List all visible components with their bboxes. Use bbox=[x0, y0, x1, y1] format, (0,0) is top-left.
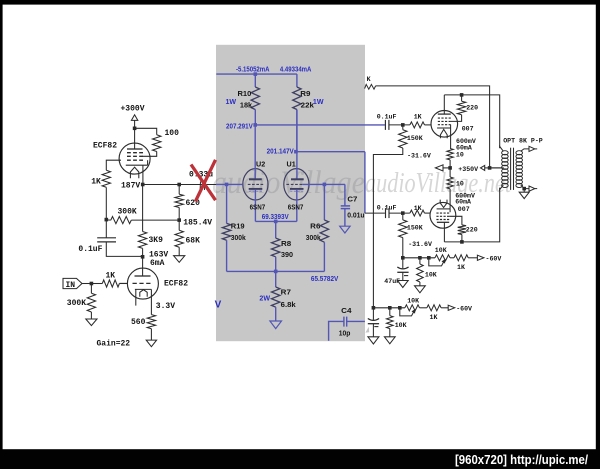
tube U2 plate bar bbox=[249, 178, 262, 180]
svg-text:C4: C4 bbox=[341, 308, 352, 315]
node +300V junction bbox=[133, 127, 137, 131]
svg-text:6mA: 6mA bbox=[150, 259, 165, 268]
tube U1 6SN7 bbox=[284, 169, 309, 200]
ground under C7 bbox=[340, 226, 350, 233]
capacitor C7 0.01u bbox=[344, 184, 346, 206]
tube 807 upper grid dots g2 bbox=[438, 120, 451, 122]
tube 807 lower plate bar bbox=[437, 221, 449, 223]
tube V1 grid g3 dashes bbox=[127, 159, 143, 161]
svg-text:R19: R19 bbox=[231, 223, 245, 230]
tube V2 grid dashes bbox=[133, 282, 151, 284]
tube U1 cathode bar bbox=[290, 188, 304, 190]
node 10K bias lower junction bbox=[388, 306, 392, 310]
tube 807 lower heater arch bbox=[440, 200, 447, 208]
ground secondary bbox=[519, 192, 529, 198]
resistor 10K bias upper bbox=[419, 258, 421, 264]
svg-text:201.147V: 201.147V bbox=[267, 148, 295, 155]
tube 807 upper plate lead bbox=[443, 95, 445, 114]
pot wiper lower bbox=[400, 308, 414, 316]
svg-text:ECF82: ECF82 bbox=[164, 280, 188, 289]
svg-text:65.5782V: 65.5782V bbox=[311, 276, 339, 283]
tube U1 pin marks bbox=[290, 190, 303, 192]
svg-text:1W: 1W bbox=[313, 99, 324, 106]
port -60V upper bbox=[477, 255, 484, 260]
node 185.4V junction bbox=[177, 218, 181, 222]
svg-text:3.3V: 3.3V bbox=[156, 302, 175, 311]
wire 187V node to gray box bbox=[143, 184, 217, 186]
svg-text:Gain=22: Gain=22 bbox=[97, 339, 131, 348]
tube 807 lower cathode line bbox=[437, 208, 451, 210]
node input junction bbox=[90, 282, 94, 286]
port -60V lower bbox=[448, 305, 455, 310]
tube U2 plate lead bbox=[254, 125, 256, 179]
tube U1 grid wire to C7 bbox=[302, 183, 345, 185]
tube 807 upper bbox=[431, 111, 458, 138]
tube V2 ECF82 lower bbox=[127, 268, 158, 299]
svg-text:10K: 10K bbox=[435, 247, 447, 254]
ground under 560 bbox=[146, 340, 156, 347]
node 69.3393V junction bbox=[274, 220, 278, 224]
resistor 300K input bbox=[90, 284, 92, 294]
svg-text:1K: 1K bbox=[430, 314, 438, 321]
resistor 10 lower bbox=[449, 168, 451, 177]
tube U1 plate bar bbox=[291, 178, 304, 180]
resistor 220 lower bbox=[458, 225, 466, 235]
capacitor 0.33u plates bbox=[200, 182, 205, 191]
node 620 top junction bbox=[177, 183, 181, 187]
svg-text:185.4V: 185.4V bbox=[183, 218, 212, 227]
ground under 47uF bbox=[397, 281, 408, 288]
svg-text:10p: 10p bbox=[339, 331, 351, 338]
wire current summing line bbox=[216, 73, 297, 75]
tube V1 heater arch bbox=[130, 167, 138, 178]
tube V1 control grid wire to 1K bbox=[106, 160, 121, 170]
svg-text:audioVillage: audioVillage bbox=[212, 165, 365, 201]
net K squiggle bbox=[365, 84, 376, 89]
net +350V arrow right bbox=[481, 165, 485, 170]
resistor 150K upper bbox=[402, 125, 404, 130]
resistor 1K bias lower bbox=[427, 305, 441, 311]
port secondary bottom bbox=[529, 186, 535, 191]
resistor 68K bbox=[178, 220, 180, 230]
resistor 1K bias upper bbox=[454, 255, 468, 261]
svg-text:300k: 300k bbox=[306, 235, 321, 242]
node 10K bias junction bbox=[418, 256, 422, 260]
node 207.291V junction bbox=[253, 123, 257, 127]
svg-text:18k: 18k bbox=[240, 103, 252, 110]
svg-text:207.291V: 207.291V bbox=[226, 123, 253, 130]
svg-text:3K9: 3K9 bbox=[149, 236, 164, 245]
svg-text:100: 100 bbox=[165, 129, 180, 138]
wire plate to transformer top bbox=[444, 95, 499, 148]
svg-text:[960x720] http://upic.me/: [960x720] http://upic.me/ bbox=[455, 452, 588, 467]
wire 10 lower to tube cathode bbox=[449, 189, 451, 209]
svg-text:220: 220 bbox=[466, 227, 478, 234]
tube V2 heater arch bbox=[140, 290, 147, 297]
svg-text:0.1uF: 0.1uF bbox=[377, 113, 397, 120]
capacitor bias lower bbox=[372, 308, 374, 320]
wire node 65.5782V line bbox=[227, 270, 325, 272]
tube 807 lower grid dots g1 bbox=[436, 212, 449, 214]
resistor 10 upper bbox=[447, 149, 453, 160]
tube 807 upper grid dots g3 bbox=[438, 124, 451, 126]
svg-text:R6: R6 bbox=[310, 223, 320, 230]
svg-text:150K: 150K bbox=[407, 224, 423, 231]
node cap bias junction bbox=[372, 306, 376, 310]
svg-text:300K: 300K bbox=[67, 299, 86, 308]
bottom black bar bbox=[0, 449, 600, 469]
svg-text:1K: 1K bbox=[457, 264, 465, 271]
svg-text:IN: IN bbox=[66, 281, 76, 290]
wire IN to junction bbox=[82, 283, 91, 285]
tube V2 cathode line bbox=[135, 288, 152, 290]
wire down gray box edge bbox=[364, 152, 366, 213]
svg-text:1W: 1W bbox=[226, 99, 237, 106]
resistor R8 390 bbox=[275, 221, 277, 238]
svg-text:1K: 1K bbox=[106, 272, 116, 281]
resistor R9 22k bbox=[296, 74, 298, 87]
tube V1 plate bar bbox=[127, 148, 143, 150]
node cathode chain junction bbox=[448, 166, 452, 170]
svg-text:60mA: 60mA bbox=[456, 144, 472, 151]
svg-text:10K: 10K bbox=[425, 272, 437, 279]
svg-text:R10: R10 bbox=[238, 91, 252, 98]
capacitor 47uF bbox=[402, 258, 404, 269]
tube 807 lower suppressor tie bbox=[449, 209, 451, 212]
svg-text:0.01u: 0.01u bbox=[347, 213, 364, 220]
wire K net to +350V node bbox=[376, 86, 490, 168]
svg-text:V: V bbox=[215, 300, 222, 311]
net +350V arrow left bbox=[443, 167, 450, 169]
node pot wiper junction bbox=[427, 256, 431, 260]
red X deletion mark bbox=[191, 165, 216, 201]
capacitor 0.1uF lower bbox=[365, 212, 385, 214]
tube U2 grid wire to box edge bbox=[216, 183, 243, 185]
svg-text:K: K bbox=[367, 76, 371, 83]
tube V1 suppressor tie bbox=[147, 160, 149, 165]
svg-text:+350V: +350V bbox=[458, 166, 478, 173]
wire secondary bottom terminal bbox=[521, 185, 529, 189]
svg-text:620: 620 bbox=[186, 199, 201, 208]
svg-text:10: 10 bbox=[456, 151, 464, 158]
wire bias row upper bbox=[403, 257, 435, 259]
wire pot to 1K upper bbox=[450, 257, 454, 259]
ground under 10K bias upper bbox=[415, 286, 426, 293]
ground under R7 bbox=[270, 321, 282, 329]
svg-text:69.3393V: 69.3393V bbox=[262, 214, 289, 221]
tube 807 upper heater arch bbox=[440, 129, 447, 138]
svg-text:-60V: -60V bbox=[456, 305, 472, 312]
resistor 1K grid leak upper bbox=[102, 170, 110, 187]
svg-text:4.49334mA: 4.49334mA bbox=[280, 66, 312, 73]
svg-text:C7: C7 bbox=[347, 196, 357, 203]
tube U2 6SN7 bbox=[243, 169, 268, 200]
ground under 300K bbox=[86, 319, 97, 326]
capacitor C4 10p bbox=[329, 321, 344, 340]
svg-text:300K: 300K bbox=[118, 207, 137, 216]
tube U1 plate lead bbox=[296, 110, 298, 180]
svg-text:007: 007 bbox=[458, 206, 470, 213]
node 201.147V junction bbox=[294, 150, 298, 154]
wire node 207.291V line bbox=[255, 124, 385, 126]
tube 807 upper cathode line bbox=[437, 127, 451, 129]
svg-text:1K: 1K bbox=[91, 178, 101, 187]
svg-text:0.1uF: 0.1uF bbox=[377, 204, 397, 211]
tube U1 grid dashes bbox=[286, 183, 302, 185]
svg-text:6.8k: 6.8k bbox=[281, 302, 296, 309]
tube U2 cathode lead bbox=[254, 190, 256, 222]
resistor 560 bbox=[147, 315, 155, 329]
pot wiper upper bbox=[429, 258, 444, 266]
tube U1 cathode lead bbox=[296, 190, 298, 222]
wire to transformer center tap bbox=[490, 167, 504, 169]
node 1K/300K junction bbox=[105, 218, 109, 222]
port IN bbox=[63, 278, 82, 288]
tube V1 plate lead bbox=[134, 128, 136, 149]
transformer core bbox=[510, 148, 512, 190]
tube 807 lower grid dots g2 bbox=[436, 215, 449, 217]
tube V2 grid wire bbox=[119, 282, 127, 284]
resistor R6 300k bbox=[323, 184, 325, 220]
svg-text:187V: 187V bbox=[121, 181, 140, 190]
wire 100 ohm to screen grid bbox=[143, 152, 157, 157]
svg-text:-5.15052mA: -5.15052mA bbox=[236, 66, 270, 73]
node R19 tap junction bbox=[225, 183, 229, 187]
resistor 150K lower bbox=[402, 213, 404, 220]
transformer primary center tap lead bbox=[490, 167, 503, 169]
transformer secondary winding bbox=[516, 151, 523, 188]
gray highlight box bbox=[216, 45, 365, 341]
resistor 10K bias lower bbox=[389, 308, 391, 316]
node 47uF junction bbox=[401, 256, 405, 260]
svg-text:R7: R7 bbox=[281, 290, 291, 297]
right border bar bbox=[596, 0, 600, 469]
svg-text:150K: 150K bbox=[407, 135, 423, 142]
svg-text:R9: R9 bbox=[300, 91, 310, 98]
svg-text:OPT 8K P-P: OPT 8K P-P bbox=[503, 138, 543, 145]
tube 807 lower bbox=[430, 202, 456, 228]
svg-text:0.1uF: 0.1uF bbox=[78, 245, 102, 254]
tube V2 plate bar bbox=[135, 275, 151, 277]
node 220 lower junction bbox=[460, 240, 464, 244]
top border bar bbox=[0, 0, 600, 5]
svg-text:10K: 10K bbox=[407, 298, 419, 305]
tube V1 grid g1 dashes bbox=[127, 152, 143, 154]
svg-text:-31.6V: -31.6V bbox=[407, 152, 431, 159]
wire secondary top terminal bbox=[521, 149, 529, 151]
capacitor 0.1uF left bbox=[105, 220, 107, 238]
wire secondary ground drop bbox=[523, 189, 525, 192]
svg-text:-60V: -60V bbox=[486, 255, 502, 262]
node R8 bottom junction bbox=[274, 270, 278, 274]
svg-text:390: 390 bbox=[281, 252, 293, 259]
resistor R7 6.8k bbox=[275, 271, 277, 287]
svg-text:ECF82: ECF82 bbox=[93, 142, 117, 151]
resistor 220 upper bbox=[457, 101, 465, 115]
svg-text:R8: R8 bbox=[281, 241, 291, 248]
tube 807 upper suppressor tie bbox=[450, 125, 452, 128]
svg-text:10: 10 bbox=[456, 180, 464, 187]
svg-text:1K: 1K bbox=[414, 114, 422, 121]
watermark fleck bbox=[365, 327, 369, 333]
transformer primary top lead bbox=[500, 146, 504, 151]
wire bias row lower bbox=[373, 307, 405, 309]
tube V2 cathode lead to 560 bbox=[150, 289, 152, 314]
wire cathode join line bbox=[255, 220, 296, 222]
tube 807 lower grid dots g3 bbox=[436, 219, 449, 221]
svg-text:audioVillage.net: audioVillage.net bbox=[365, 168, 512, 199]
svg-text:300k: 300k bbox=[231, 235, 246, 242]
svg-text:007: 007 bbox=[462, 126, 474, 133]
wire plate to transformer bottom bbox=[444, 188, 499, 242]
node R6 tap junction bbox=[323, 183, 327, 187]
ground under 10K bias lower bbox=[384, 337, 395, 344]
resistor R10 18k bbox=[254, 74, 256, 87]
wire -31.6V upper to lower bias row bbox=[373, 148, 402, 308]
tube V1 cathode line bbox=[126, 164, 148, 166]
svg-text:U1: U1 bbox=[287, 161, 296, 168]
node pot wiper lower junction bbox=[398, 306, 402, 310]
tube V1 grid g2 dashes bbox=[127, 155, 143, 157]
tube U2 cathode bar bbox=[249, 188, 263, 190]
node 220 upper junction bbox=[460, 93, 464, 97]
tube V2 plate lead bbox=[142, 257, 144, 276]
resistor R19 300k bbox=[226, 184, 228, 223]
tube V1 ECF82 upper bbox=[119, 143, 150, 174]
wire screen to 220 lower bbox=[449, 216, 462, 225]
resistor 620 bbox=[178, 185, 180, 195]
svg-text:U2: U2 bbox=[256, 161, 265, 168]
node upper grid junction bbox=[401, 123, 405, 127]
ground under bias cap bbox=[368, 337, 379, 344]
wire pot to 1K lower bbox=[420, 307, 427, 309]
power +300V arrow symbol bbox=[131, 115, 137, 121]
transformer primary winding bbox=[502, 151, 509, 188]
ground under 68K bbox=[174, 256, 185, 263]
tube 807 upper cathode lead bbox=[450, 128, 452, 149]
tube V1 cathode lead bbox=[142, 165, 144, 184]
svg-text:68K: 68K bbox=[186, 236, 201, 245]
port secondary top bbox=[529, 146, 535, 151]
svg-text:10K: 10K bbox=[395, 322, 407, 329]
svg-text:6SN7: 6SN7 bbox=[250, 204, 266, 211]
svg-text:2W: 2W bbox=[259, 295, 270, 302]
svg-text:60mA: 60mA bbox=[455, 198, 471, 205]
resistor 3K9 bbox=[142, 185, 144, 232]
svg-text:220: 220 bbox=[466, 105, 478, 112]
node 187V junction bbox=[141, 183, 145, 187]
svg-text:6SN7: 6SN7 bbox=[288, 204, 304, 211]
wire +300V to 100 ohm resistor bbox=[135, 128, 157, 135]
tube 807 upper plate bar bbox=[438, 113, 451, 115]
svg-text:-31.6V: -31.6V bbox=[408, 241, 432, 248]
transformer primary bottom lead bbox=[500, 185, 504, 190]
node center tap junction bbox=[488, 166, 492, 170]
tube U2 pin marks bbox=[249, 190, 262, 192]
node secondary ground junction bbox=[522, 187, 526, 191]
node 163V junction bbox=[141, 255, 145, 259]
tube 807 lower plate lead bbox=[443, 222, 445, 242]
wire screen to 220 upper bbox=[451, 115, 462, 122]
svg-text:+300V: +300V bbox=[121, 104, 145, 113]
svg-text:560: 560 bbox=[131, 318, 146, 327]
left border bar bbox=[0, 0, 3, 469]
resistor 100 bbox=[153, 135, 161, 152]
tube 807 upper grid dots g1 bbox=[438, 117, 451, 119]
node lower grid junction bbox=[401, 211, 405, 215]
node R10 top junction bbox=[254, 72, 258, 76]
tube U2 grid dashes bbox=[248, 183, 263, 185]
wire 201.147V line bbox=[296, 151, 365, 153]
tube V2 heater stub bbox=[135, 289, 137, 305]
